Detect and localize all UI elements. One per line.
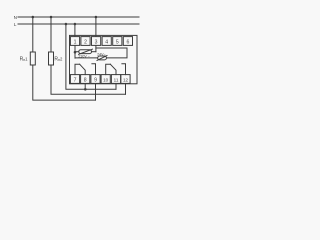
node junction terminal 8 to L wire bbox=[84, 88, 87, 91]
contact K1.1 fixed 7 bbox=[75, 64, 80, 74]
wire terminal 8 stub bbox=[84, 84, 86, 90]
terminal 9 bbox=[91, 75, 100, 84]
node junction L to terminal 1 bbox=[74, 23, 77, 26]
contact K1.2 fixed 10 bbox=[106, 64, 111, 74]
terminal 5 bbox=[113, 37, 122, 46]
contact K1.2 NO terminal 12 bbox=[122, 64, 126, 75]
wire N to R1 bbox=[32, 17, 34, 52]
contact K1.1 NO terminal 9 bbox=[92, 64, 96, 75]
svg-text:10: 10 bbox=[103, 78, 109, 83]
svg-text:12: 12 bbox=[123, 78, 129, 83]
wire terminal 9 stub bbox=[95, 84, 97, 100]
svg-text:8: 8 bbox=[84, 78, 87, 84]
wire N to terminal 3 bbox=[95, 17, 97, 37]
wire terminal 3 loop to coil K2 bbox=[96, 48, 127, 58]
terminal 7 bbox=[70, 75, 79, 84]
svg-text:5: 5 bbox=[116, 40, 119, 46]
node junction N to terminal 3 bbox=[95, 16, 98, 19]
wire N to R2 bbox=[50, 17, 52, 52]
contact K1.1 blade to 8 bbox=[80, 64, 86, 74]
coil K1 slash bbox=[79, 49, 93, 54]
svg-text:1: 1 bbox=[74, 40, 77, 46]
wire terminal 3 stub down bbox=[95, 45, 97, 51]
svg-text:24V~: 24V~ bbox=[97, 52, 106, 56]
terminal 2 bbox=[81, 37, 90, 46]
terminal 1 bbox=[70, 37, 79, 46]
wire L down left of module bbox=[66, 24, 116, 89]
node junction N to R2 bbox=[50, 16, 53, 19]
node junction L to bottom wire bbox=[65, 23, 68, 26]
svg-text:N: N bbox=[14, 15, 17, 20]
svg-text:4: 4 bbox=[105, 40, 108, 46]
wire node down to coil K2 bbox=[75, 57, 98, 59]
wire L rail bbox=[18, 23, 139, 25]
svg-text:11: 11 bbox=[114, 78, 119, 83]
svg-text:Rн2: Rн2 bbox=[54, 56, 63, 62]
terminal 12 bbox=[121, 75, 130, 84]
terminal 11 bbox=[111, 75, 120, 84]
node coil junction bbox=[74, 51, 77, 54]
wire terminal 11 stub bbox=[115, 84, 117, 90]
svg-text:2: 2 bbox=[84, 40, 87, 46]
svg-text:Rн1: Rн1 bbox=[20, 56, 29, 62]
resistor Rn2 bbox=[49, 52, 54, 65]
wire terminal 12 stub bbox=[125, 84, 127, 94]
terminal 6 bbox=[123, 37, 132, 46]
wire coil K1 to terminal 3 bbox=[92, 51, 96, 53]
contact K1.2 blade to 11 bbox=[110, 64, 116, 74]
coil K2 24V bbox=[98, 56, 107, 60]
node junction N to R1 bbox=[32, 16, 35, 19]
svg-text:9: 9 bbox=[94, 78, 97, 84]
wire R1 to terminal 9 bbox=[33, 65, 96, 100]
wire R2 to terminal 12 bbox=[51, 65, 126, 94]
coil K1 230V bbox=[79, 50, 92, 54]
wire terminal 1 to coil node bbox=[74, 45, 76, 58]
svg-text:6: 6 bbox=[126, 40, 129, 46]
terminal 10 bbox=[101, 75, 110, 84]
wire node to coil K1 bbox=[75, 51, 79, 53]
terminal 3 bbox=[92, 37, 101, 46]
svg-text:3: 3 bbox=[95, 40, 98, 46]
wire N rail bbox=[18, 16, 139, 18]
resistor Rn1 bbox=[30, 52, 35, 65]
svg-text:7: 7 bbox=[74, 78, 77, 84]
terminal 8 bbox=[81, 75, 90, 84]
relay module U1 outline bbox=[70, 35, 138, 83]
coil K2 slash bbox=[97, 56, 107, 61]
terminal 4 bbox=[102, 37, 111, 46]
wire L to terminal 1 bbox=[74, 24, 76, 37]
svg-text:L: L bbox=[14, 22, 17, 27]
